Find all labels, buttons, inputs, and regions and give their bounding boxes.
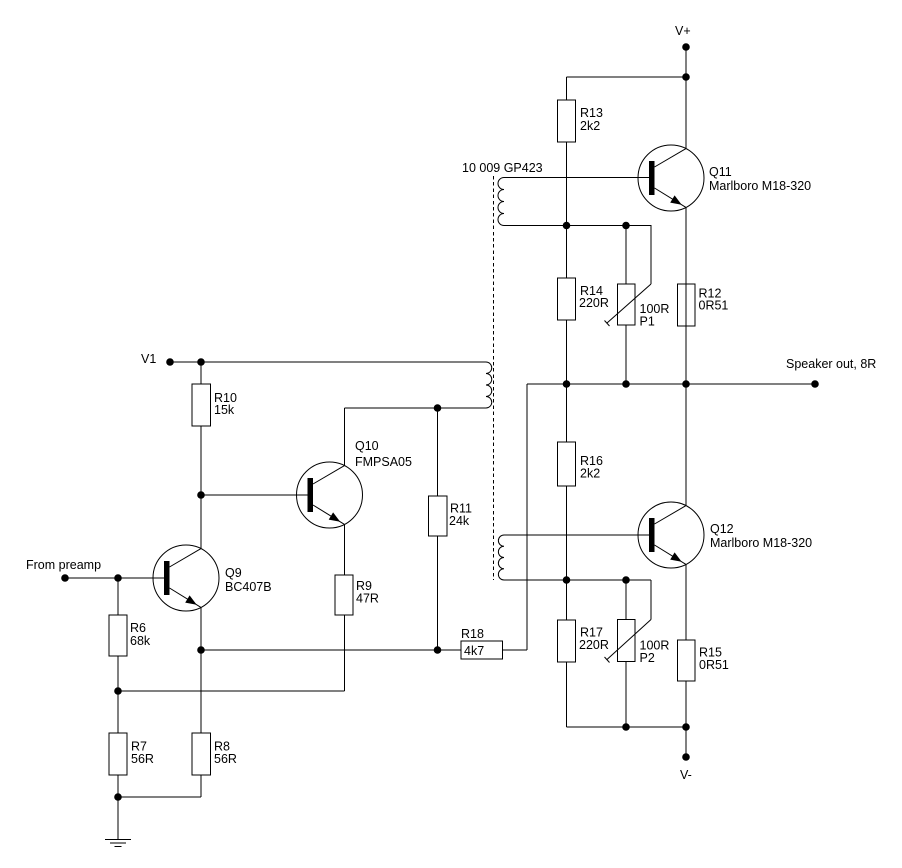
svg-text:220R: 220R (579, 296, 609, 310)
svg-text:68k: 68k (130, 634, 151, 648)
svg-text:Q10: Q10 (355, 439, 379, 453)
svg-text:BC407B: BC407B (225, 580, 272, 594)
svg-text:V-: V- (680, 768, 692, 782)
svg-text:47R: 47R (356, 592, 379, 606)
svg-text:R13: R13 (580, 106, 603, 120)
svg-text:Q9: Q9 (225, 566, 242, 580)
svg-text:Marlboro M18-320: Marlboro M18-320 (710, 536, 812, 550)
svg-text:0R51: 0R51 (699, 658, 729, 672)
svg-text:10 009 GP423: 10 009 GP423 (462, 161, 543, 175)
svg-text:24k: 24k (449, 514, 470, 528)
svg-text:V1: V1 (141, 352, 156, 366)
svg-text:P2: P2 (640, 651, 655, 665)
svg-text:From preamp: From preamp (26, 558, 101, 572)
svg-text:Q11: Q11 (709, 165, 732, 179)
svg-text:Q12: Q12 (710, 522, 734, 536)
svg-text:56R: 56R (214, 752, 237, 766)
svg-text:0R51: 0R51 (699, 299, 729, 313)
svg-text:56R: 56R (131, 752, 154, 766)
svg-text:V+: V+ (675, 24, 691, 38)
svg-text:220R: 220R (579, 638, 609, 652)
svg-text:P1: P1 (640, 315, 655, 329)
svg-text:2k2: 2k2 (580, 467, 600, 481)
svg-text:4k7: 4k7 (464, 644, 484, 658)
svg-text:R6: R6 (130, 621, 146, 635)
svg-text:Marlboro M18-320: Marlboro M18-320 (709, 179, 811, 193)
svg-text:FMPSA05: FMPSA05 (355, 455, 412, 469)
svg-text:2k2: 2k2 (580, 119, 600, 133)
svg-text:Speaker out, 8R: Speaker out, 8R (786, 357, 876, 371)
svg-text:15k: 15k (214, 403, 235, 417)
svg-text:R18: R18 (461, 627, 484, 641)
